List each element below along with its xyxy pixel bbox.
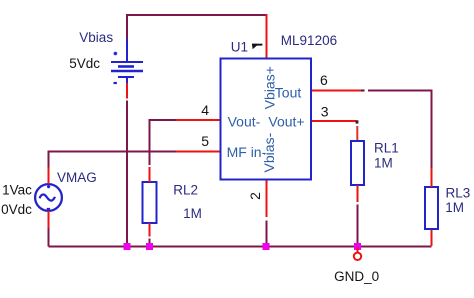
svg-text:RL2: RL2	[173, 182, 198, 197]
resistor RL1 bottom pin (red)	[357, 185, 359, 202]
wire pin6 stub at pin end	[361, 90, 365, 92]
svg-text:Vbias-: Vbias-	[261, 132, 277, 172]
resistor RL2 body	[143, 182, 157, 223]
svg-text:GND_0: GND_0	[334, 269, 379, 284]
pin 4 of U1 (red stub)	[176, 119, 220, 121]
VMAG plus mark	[47, 185, 50, 188]
pin 2 of U1 (red stub)	[266, 180, 268, 217]
svg-text:0Vdc: 0Vdc	[1, 202, 32, 217]
junction at RL2 / ground rail	[146, 243, 153, 250]
VMAG top pin (red)	[48, 168, 50, 185]
resistor RL3 top pin (red)	[431, 168, 433, 187]
svg-text:4: 4	[201, 102, 209, 118]
svg-text:3: 3	[321, 103, 329, 119]
resistor RL2 top pin (red)	[149, 167, 151, 182]
pin 1 of U1 (red stub)	[266, 14, 268, 58]
svg-text:1M: 1M	[445, 200, 464, 215]
pin 5 of U1 (red stub)	[176, 151, 220, 153]
junction at pin2 / ground rail	[263, 243, 270, 250]
svg-text:U1: U1	[231, 39, 248, 54]
ground node GND_0 stub	[357, 248, 359, 253]
VMAG sine squiggle	[40, 194, 55, 200]
resistor RL1 top pin (red)	[356, 126, 358, 140]
wire RL1 bottom segment	[357, 205, 359, 247]
svg-text:5: 5	[201, 133, 209, 149]
resistor RL3 bottom pin (red)	[431, 230, 433, 246]
VMAG minus mark	[47, 208, 50, 210]
svg-text:1M: 1M	[183, 206, 202, 221]
pin 6 of U1 (red stub)	[312, 90, 362, 92]
svg-text:RL3: RL3	[446, 186, 471, 201]
svg-text:Vbias: Vbias	[79, 30, 113, 45]
svg-text:6: 6	[320, 72, 328, 88]
svg-text:Vout-: Vout-	[228, 114, 261, 130]
voltage source Vbias battery symbol	[111, 39, 143, 83]
svg-text:5Vdc: 5Vdc	[69, 56, 100, 71]
resistor RL1 body	[351, 141, 364, 185]
node corner pin3 to RL1	[356, 120, 359, 123]
op-amp U1 body rectangle	[221, 59, 312, 180]
wire ground bottom rail	[49, 246, 432, 248]
pin number 1 (rotated)	[252, 44, 262, 50]
svg-text:Tout: Tout	[275, 84, 302, 100]
wire RL2 bottom segment	[149, 239, 151, 247]
sine source VMAG circle	[35, 184, 62, 211]
junction at battery / ground rail	[124, 243, 131, 250]
junction at RL1 / ground rail	[354, 243, 361, 250]
svg-text:1M: 1M	[374, 156, 393, 171]
wire pin6 to RL3 top	[368, 91, 432, 169]
pin 3 of U1 (red stub)	[312, 120, 357, 122]
svg-text:1Vac: 1Vac	[2, 182, 32, 197]
svg-text:VMAG: VMAG	[57, 170, 97, 185]
battery positive pin (red)	[126, 83, 128, 99]
wire battery bottom to ground rail	[126, 101, 128, 247]
wire VMAG bottom segment	[48, 228, 50, 247]
wire top rail Vbias net	[127, 15, 267, 39]
svg-text:Vout+: Vout+	[268, 114, 304, 130]
ground node GND_0 circle	[354, 253, 361, 260]
resistor RL2 bottom pin (red)	[149, 223, 151, 237]
wire pin5 to VMAG top	[49, 152, 177, 168]
wire pin2 lower segment	[266, 221, 268, 247]
svg-text:RL1: RL1	[374, 140, 399, 155]
svg-text:ML91206: ML91206	[281, 33, 337, 48]
wire pin4 to RL2 top	[150, 120, 177, 165]
VMAG bottom pin (red)	[48, 211, 50, 228]
svg-text:2: 2	[247, 192, 263, 200]
resistor RL3 body	[425, 187, 438, 229]
